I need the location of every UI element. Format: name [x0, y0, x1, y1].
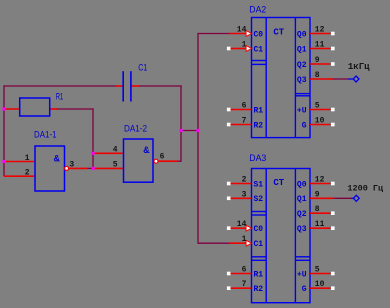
svg-text:3: 3 [242, 190, 247, 199]
svg-text:G: G [302, 121, 307, 130]
junction node DA1-1 pin1 [2, 160, 5, 163]
IC DA3 input C1 pin 1 [229, 242, 246, 244]
svg-text:11: 11 [315, 41, 325, 50]
svg-text:6: 6 [242, 102, 247, 111]
svg-text:DA3: DA3 [249, 153, 266, 163]
svg-text:+U: +U [297, 270, 307, 279]
IC DA3 output G pin 10 [310, 287, 331, 289]
svg-text:C1: C1 [254, 240, 264, 249]
IC DA3 input R2 pin 7 [231, 287, 252, 289]
svg-text:C1: C1 [254, 45, 264, 54]
IC DA2 counter body [252, 18, 311, 138]
gate DA1-1 inversion circle pin3 [65, 166, 69, 170]
pin wire DA1-2 pin6 output [158, 160, 178, 162]
svg-text:R1: R1 [254, 270, 264, 279]
svg-text:10: 10 [315, 117, 325, 126]
IC DA2 output Q2 pin 9 [310, 63, 331, 65]
IC DA2 output Q3 pin 8 [310, 78, 333, 80]
IC DA2 output Q0 pin 12 [310, 33, 331, 35]
svg-text:14: 14 [237, 26, 247, 35]
svg-text:1кГц: 1кГц [348, 62, 370, 72]
IC DA2 output +U pin 5 [310, 109, 331, 111]
wire R1 right to corner x93 [57, 108, 94, 110]
svg-text:4: 4 [113, 146, 118, 155]
svg-text:7: 7 [242, 280, 247, 289]
svg-text:8: 8 [315, 205, 320, 214]
resistor R1 body [20, 98, 50, 116]
wire DA3 Q1 to output port [330, 197, 351, 199]
svg-text:&: & [54, 154, 61, 164]
svg-text:Q0: Q0 [297, 180, 307, 189]
svg-text:DA2: DA2 [249, 5, 266, 15]
svg-text:R1: R1 [254, 106, 264, 115]
pin wire C1 left [116, 85, 123, 87]
IC DA3 input C0 pin 14 [231, 227, 247, 229]
svg-text:12: 12 [315, 176, 325, 185]
svg-text:5: 5 [113, 161, 118, 170]
svg-text:Q3: Q3 [297, 76, 307, 85]
pin wire R1 right [49, 108, 57, 110]
svg-text:Q0: Q0 [297, 30, 307, 39]
svg-text:5: 5 [315, 102, 320, 111]
svg-text:1: 1 [25, 154, 30, 163]
svg-text:DA1-1: DA1-1 [34, 130, 57, 140]
junction node DA1-2 pin4 [91, 152, 94, 155]
svg-text:&: & [143, 145, 150, 155]
gate DA1-2 inversion circle pin6 [154, 159, 158, 163]
svg-text:1200 Гц: 1200 Гц [347, 183, 383, 193]
svg-text:1: 1 [242, 41, 247, 50]
svg-text:7: 7 [242, 117, 247, 126]
svg-text:R2: R2 [254, 121, 264, 130]
svg-text:9: 9 [315, 56, 320, 65]
junction node R1.left [2, 107, 5, 110]
wire link junction x181 to x198 [181, 130, 198, 132]
IC DA3 output Q1 pin 9 [310, 197, 333, 199]
svg-text:11: 11 [315, 220, 325, 229]
IC DA3 input S1 pin 2 [231, 183, 252, 185]
svg-text:R2: R2 [254, 285, 264, 294]
IC DA3 counter body [252, 169, 311, 303]
IC DA2 output G pin 10 [310, 124, 331, 126]
svg-text:C1: C1 [138, 63, 147, 73]
pin wire R1 left [4, 108, 20, 110]
svg-text:C0: C0 [254, 225, 264, 234]
svg-text:14: 14 [237, 220, 247, 229]
svg-text:Q2: Q2 [297, 210, 307, 219]
port 1kHz diamond [353, 76, 359, 82]
wire C1 right plate to corner x181 [139, 85, 182, 87]
svg-text:Q2: Q2 [297, 61, 307, 70]
svg-text:2: 2 [242, 176, 247, 185]
IC DA3 input R1 pin 6 [231, 273, 252, 275]
pin wire DA1-1 pin3 output [69, 167, 87, 169]
svg-text:+U: +U [297, 106, 307, 115]
svg-text:Q3: Q3 [297, 225, 307, 234]
wire top horizontal to C1 left plate [3, 85, 116, 87]
svg-text:S2: S2 [254, 195, 264, 204]
pin wire DA1-1 pin1 [4, 161, 36, 163]
IC DA2 input C1 pin 1 [231, 48, 247, 50]
pin wire DA1-1 pin2 [4, 175, 36, 177]
wire vertical x181 (C1.right/DA1-2 out node) [180, 85, 182, 161]
port 1kHz lead [348, 78, 353, 80]
pin wire C1 right [131, 85, 139, 87]
pin wire DA1-2 pin4 [93, 152, 124, 154]
svg-text:Q1: Q1 [297, 195, 307, 204]
IC DA3 output Q0 pin 12 [310, 183, 331, 185]
svg-text:8: 8 [315, 71, 320, 80]
junction node DA1-2 pin5 [91, 167, 94, 170]
wire vertical x93 (R1.right/DA1-1 out to DA1-2 inputs) [92, 108, 94, 168]
wire DA2 Q3 to output port [330, 78, 349, 80]
svg-text:S1: S1 [254, 180, 264, 189]
IC DA3 input S2 pin 3 [231, 197, 252, 199]
wire net RC left vertical (C1.left/R1.left/DA1-1 inputs) [3, 85, 5, 176]
capacitor C1 right plate [130, 71, 132, 101]
svg-text:12: 12 [315, 26, 325, 35]
port 1200Hz diamond [353, 195, 359, 201]
wire DA1-2 pin6 to x181 corner [177, 160, 182, 162]
capacitor C1 left plate [122, 71, 124, 101]
svg-text:DA1-2: DA1-2 [124, 123, 147, 133]
svg-text:CT: CT [273, 178, 284, 188]
gate DA1-1 body [35, 146, 65, 191]
IC DA2 input R1 pin 6 [231, 109, 252, 111]
svg-text:CT: CT [273, 27, 284, 37]
wire DA1-1 pin3 to x93 junction [87, 167, 94, 169]
wire vertical x198 (clock distribution) [197, 33, 199, 244]
IC DA3 output Q2 pin 8 [310, 212, 331, 214]
junction node x181 link [179, 129, 182, 132]
gate DA1-2 body [124, 139, 154, 182]
pin wire DA1-2 pin5 [93, 167, 124, 169]
IC DA2 output Q1 pin 11 [310, 48, 331, 50]
port 1200Hz lead [351, 197, 353, 199]
svg-text:1: 1 [242, 235, 247, 244]
wire top branch to DA2 C0 [198, 33, 230, 35]
svg-text:6: 6 [160, 153, 165, 162]
svg-text:5: 5 [315, 266, 320, 275]
wire bottom branch to DA3 C1 [198, 242, 230, 244]
junction node x198 link [196, 129, 199, 132]
IC DA3 output Q3 pin 11 [310, 227, 331, 229]
svg-text:R1: R1 [56, 92, 64, 102]
svg-text:9: 9 [315, 190, 320, 199]
IC DA2 input R2 pin 7 [231, 124, 252, 126]
svg-text:10: 10 [315, 280, 325, 289]
svg-text:6: 6 [242, 266, 247, 275]
IC DA3 output +U pin 5 [310, 273, 331, 275]
svg-text:2: 2 [25, 168, 30, 177]
svg-text:Q1: Q1 [297, 45, 307, 54]
svg-text:G: G [302, 285, 307, 294]
svg-text:3: 3 [69, 161, 74, 170]
svg-text:C0: C0 [254, 30, 264, 39]
IC DA2 input C0 pin 14 [229, 33, 246, 35]
